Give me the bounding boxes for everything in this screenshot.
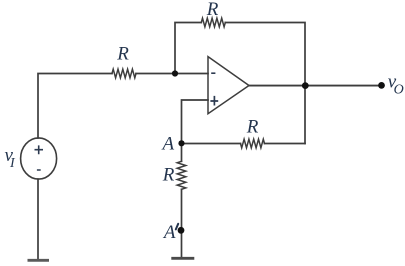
svg-text:A: A <box>162 222 176 243</box>
resistor R (lower right) <box>241 139 265 148</box>
svg-text:A: A <box>160 134 174 155</box>
svg-text:R: R <box>162 164 175 185</box>
wire: op-amp output to terminal <box>249 85 382 87</box>
op-amp minus symbol <box>211 72 215 74</box>
wire: vertical resistor to ground <box>181 189 183 257</box>
source minus symbol <box>37 169 41 171</box>
node junction dot (inverting input) <box>172 70 178 76</box>
svg-text:R: R <box>206 0 219 20</box>
wire: lower-right horizontal (output vertical to resistor) <box>265 143 306 145</box>
svg-text:R: R <box>246 116 259 137</box>
wire: feedback left vertical <box>175 23 201 74</box>
op-amp U1 triangle <box>208 57 249 114</box>
ground (under A') <box>171 257 194 260</box>
node A dot <box>178 140 184 146</box>
wire: feedback top and right vertical <box>225 23 305 144</box>
svg-text:vO: vO <box>388 72 404 98</box>
svg-text:vI: vI <box>5 145 16 171</box>
node A' dot <box>178 227 185 234</box>
op-amp plus symbol <box>210 96 218 106</box>
node junction dot (output) <box>302 82 309 89</box>
ground (left, under source) <box>28 259 50 262</box>
wire: resistor to node A <box>182 143 241 145</box>
wire: source bottom to ground <box>37 179 39 259</box>
source V1 circle <box>21 138 57 179</box>
resistor R (vertical, A to A') <box>177 161 186 189</box>
wire: source top to input resistor <box>38 74 112 139</box>
svg-text:R: R <box>116 44 129 65</box>
source plus symbol <box>35 145 44 154</box>
wire: input resistor to junction and op-amp minus input <box>136 73 208 75</box>
wire: plus input down to node A <box>182 100 209 143</box>
resistor R (input) <box>112 69 136 78</box>
resistor R (feedback) <box>201 18 225 27</box>
terminal dot vO <box>378 82 385 89</box>
wire: node A down to vertical resistor <box>181 143 183 161</box>
